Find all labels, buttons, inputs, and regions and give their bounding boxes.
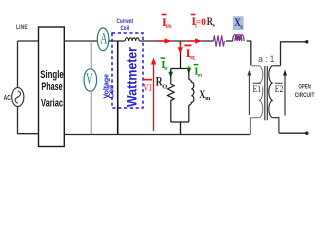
svg-text:LINE: LINE: [16, 24, 28, 31]
svg-text:AC: AC: [4, 93, 11, 102]
label Xm: [199, 89, 210, 102]
svg-text:Wattmeter: Wattmeter: [124, 47, 140, 107]
inductor Xs: [233, 35, 245, 41]
voltage arrow V1: [143, 58, 156, 132]
svg-text:s: s: [213, 23, 216, 29]
inductor Xm lower wire: [188, 105, 190, 122]
label Xs highlight: [233, 16, 244, 30]
wire secondary bottom: [279, 132, 307, 134]
current arrow I0 green: [161, 57, 174, 78]
node terminal top: [305, 40, 308, 43]
magnetizing branch tail: [180, 122, 182, 135]
wattmeter current coil: [125, 38, 139, 41]
current arrow I_1=0: [188, 14, 207, 44]
svg-text:V1: V1: [143, 83, 152, 94]
svg-text:E1: E1: [253, 84, 262, 94]
svg-text:Variac: Variac: [41, 97, 63, 109]
voltage arrow E1: [247, 70, 262, 116]
svg-text:A: A: [100, 31, 108, 48]
svg-text:Single: Single: [40, 69, 63, 81]
transformer core: [264, 66, 266, 120]
label Current Coil: [117, 18, 134, 32]
svg-text:Coil: Coil: [107, 85, 116, 99]
wire bottom main: [64, 134, 250, 136]
wire variac to ammeter: [64, 40, 97, 42]
single phase variac: [39, 27, 65, 147]
node terminal bottom: [305, 132, 308, 135]
wire left rail lower: [17, 106, 19, 134]
resistor Rs: [213, 35, 224, 46]
wire voltmeter branch lower: [90, 91, 92, 135]
label OPEN CIRCUIT: [295, 83, 315, 99]
wire Xs to transformer: [247, 41, 251, 65]
svg-text:0: 0: [164, 66, 167, 72]
current arrow Im green: [186, 64, 202, 79]
svg-text:Coil: Coil: [121, 25, 130, 32]
svg-text:O: O: [162, 84, 167, 91]
svg-text:a : 1: a : 1: [258, 54, 274, 64]
svg-text:OPEN: OPEN: [299, 83, 311, 90]
svg-text:NL: NL: [189, 56, 197, 62]
wire current coil to Rs: [139, 40, 213, 42]
current arrow I_NL: [178, 42, 197, 62]
ammeter A: [97, 28, 109, 51]
transformer winding E2: [269, 66, 281, 133]
current arrow I_IN: [157, 14, 172, 44]
svg-text:IN: IN: [166, 24, 172, 30]
wire left rail upper: [17, 41, 19, 88]
label R0: [156, 75, 168, 91]
transformer winding E1: [250, 66, 262, 134]
label Rs: [207, 16, 216, 29]
wire secondary top: [281, 42, 307, 66]
wire wattmeter voltage coil tap: [117, 41, 119, 135]
label Voltage Coil: [102, 74, 116, 99]
resistor R0: [168, 84, 175, 101]
svg-text:V: V: [86, 71, 93, 88]
resistor R0 lower wire: [170, 101, 172, 122]
svg-text:CIRCUIT: CIRCUIT: [295, 92, 315, 99]
svg-text:m: m: [205, 96, 210, 102]
wire voltmeter branch upper: [90, 41, 92, 69]
svg-text:m: m: [198, 72, 203, 78]
svg-text:E2: E2: [275, 84, 284, 94]
voltmeter V: [84, 69, 97, 91]
voltage arrow E2: [274, 70, 287, 116]
inductor Xm: [189, 80, 194, 106]
wire top-left from line terminal to variac: [18, 40, 39, 42]
wattmeter dashed box: [112, 33, 143, 108]
svg-text:=0: =0: [196, 18, 206, 28]
resistor R0 branch wire: [170, 69, 172, 85]
label Xs: [234, 17, 243, 31]
wire Rs to Xs: [226, 40, 233, 42]
wire ammeter to current coil: [109, 40, 125, 42]
wire bottom-left: [18, 133, 39, 135]
svg-text:Phase: Phase: [41, 81, 62, 93]
inductor Xm branch wire: [188, 69, 190, 80]
magnetizing branch top bar: [171, 68, 190, 70]
node shunt junction wire down: [180, 48, 182, 69]
magnetizing branch bottom bar: [171, 121, 189, 123]
ac source: [4, 88, 24, 107]
